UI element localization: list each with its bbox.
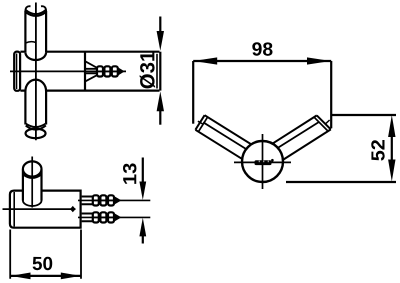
svg-text:Ø31: Ø31	[136, 51, 159, 90]
svg-text:52: 52	[368, 139, 389, 161]
svg-text:13: 13	[120, 163, 141, 186]
svg-text:98: 98	[252, 40, 274, 61]
svg-text:50: 50	[32, 254, 53, 275]
